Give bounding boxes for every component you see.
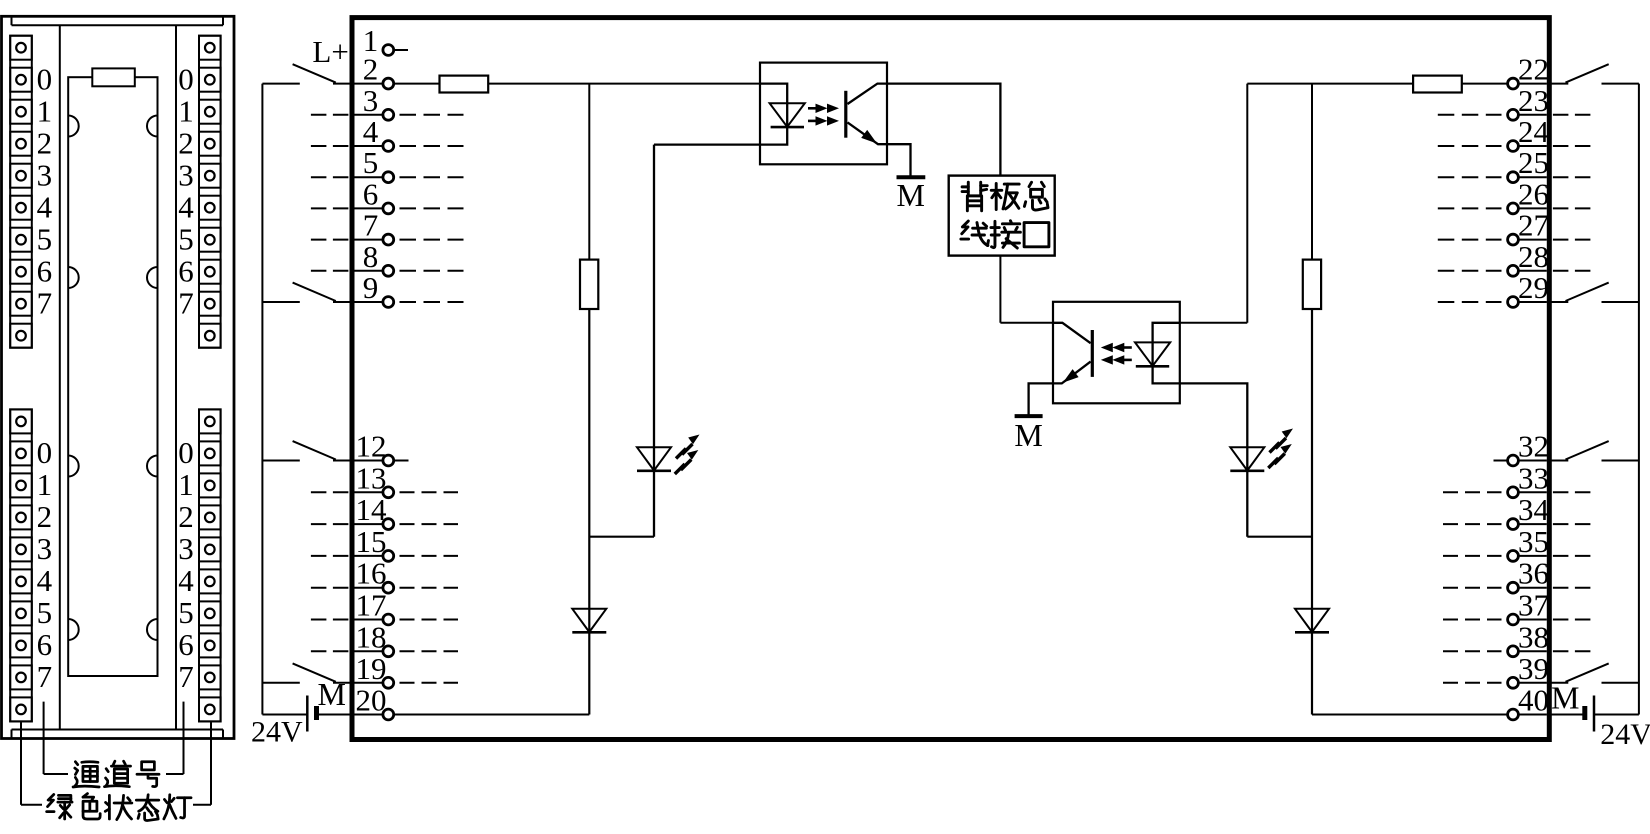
svg-text:7: 7 — [178, 286, 194, 321]
svg-text:5: 5 — [37, 222, 53, 257]
svg-text:32: 32 — [1518, 429, 1549, 464]
svg-text:40: 40 — [1518, 683, 1549, 718]
svg-text:6: 6 — [178, 627, 194, 662]
svg-text:36: 36 — [1518, 556, 1549, 591]
svg-text:24: 24 — [1518, 114, 1550, 149]
svg-text:20: 20 — [356, 683, 387, 718]
svg-text:7: 7 — [363, 208, 379, 243]
svg-text:28: 28 — [1518, 239, 1549, 274]
svg-text:2: 2 — [178, 499, 194, 534]
svg-text:5: 5 — [37, 595, 53, 630]
svg-text:39: 39 — [1518, 651, 1549, 686]
svg-text:0: 0 — [37, 62, 53, 97]
svg-text:29: 29 — [1518, 270, 1549, 305]
svg-text:0: 0 — [37, 435, 53, 470]
svg-text:6: 6 — [363, 176, 379, 211]
svg-text:24V: 24V — [251, 716, 303, 749]
svg-text:1: 1 — [37, 94, 53, 129]
svg-text:3: 3 — [178, 158, 194, 193]
svg-text:37: 37 — [1518, 588, 1549, 623]
svg-text:2: 2 — [363, 52, 379, 87]
svg-text:4: 4 — [363, 114, 379, 149]
svg-text:23: 23 — [1518, 83, 1549, 118]
svg-text:7: 7 — [178, 659, 194, 694]
svg-text:7: 7 — [37, 286, 53, 321]
svg-text:0: 0 — [178, 62, 194, 97]
svg-text:4: 4 — [37, 190, 53, 225]
svg-text:9: 9 — [363, 270, 379, 305]
svg-text:2: 2 — [37, 499, 53, 534]
svg-text:24V: 24V — [1600, 718, 1650, 751]
svg-text:3: 3 — [363, 83, 379, 118]
svg-text:8: 8 — [363, 239, 379, 274]
svg-text:M: M — [896, 177, 924, 213]
svg-text:26: 26 — [1518, 176, 1549, 211]
svg-text:4: 4 — [178, 190, 194, 225]
svg-text:5: 5 — [363, 145, 379, 180]
svg-text:5: 5 — [178, 595, 194, 630]
svg-text:25: 25 — [1518, 145, 1549, 180]
svg-text:34: 34 — [1518, 492, 1550, 527]
svg-text:12: 12 — [356, 429, 387, 464]
svg-text:6: 6 — [37, 254, 53, 289]
svg-text:1: 1 — [178, 467, 194, 502]
svg-text:3: 3 — [37, 531, 53, 566]
svg-text:19: 19 — [356, 651, 387, 686]
svg-text:6: 6 — [178, 254, 194, 289]
svg-text:27: 27 — [1518, 208, 1549, 243]
svg-text:33: 33 — [1518, 460, 1549, 495]
svg-text:18: 18 — [356, 619, 387, 654]
svg-text:16: 16 — [356, 556, 387, 591]
svg-text:5: 5 — [178, 222, 194, 257]
svg-text:2: 2 — [37, 126, 53, 161]
svg-text:4: 4 — [37, 563, 53, 598]
svg-text:4: 4 — [178, 563, 194, 598]
svg-text:35: 35 — [1518, 524, 1549, 559]
svg-text:15: 15 — [356, 524, 387, 559]
svg-text:22: 22 — [1518, 52, 1549, 87]
svg-text:3: 3 — [178, 531, 194, 566]
svg-text:1: 1 — [178, 94, 194, 129]
svg-text:M: M — [1014, 417, 1042, 453]
svg-text:M: M — [317, 676, 345, 712]
svg-text:L+: L+ — [312, 34, 348, 69]
svg-text:13: 13 — [356, 460, 387, 495]
svg-text:17: 17 — [356, 588, 387, 623]
svg-text:0: 0 — [178, 435, 194, 470]
svg-text:2: 2 — [178, 126, 194, 161]
svg-text:6: 6 — [37, 627, 53, 662]
svg-text:14: 14 — [356, 492, 388, 527]
svg-text:1: 1 — [37, 467, 53, 502]
svg-text:M: M — [1551, 680, 1579, 716]
svg-text:3: 3 — [37, 158, 53, 193]
svg-text:38: 38 — [1518, 619, 1549, 654]
svg-text:7: 7 — [37, 659, 53, 694]
